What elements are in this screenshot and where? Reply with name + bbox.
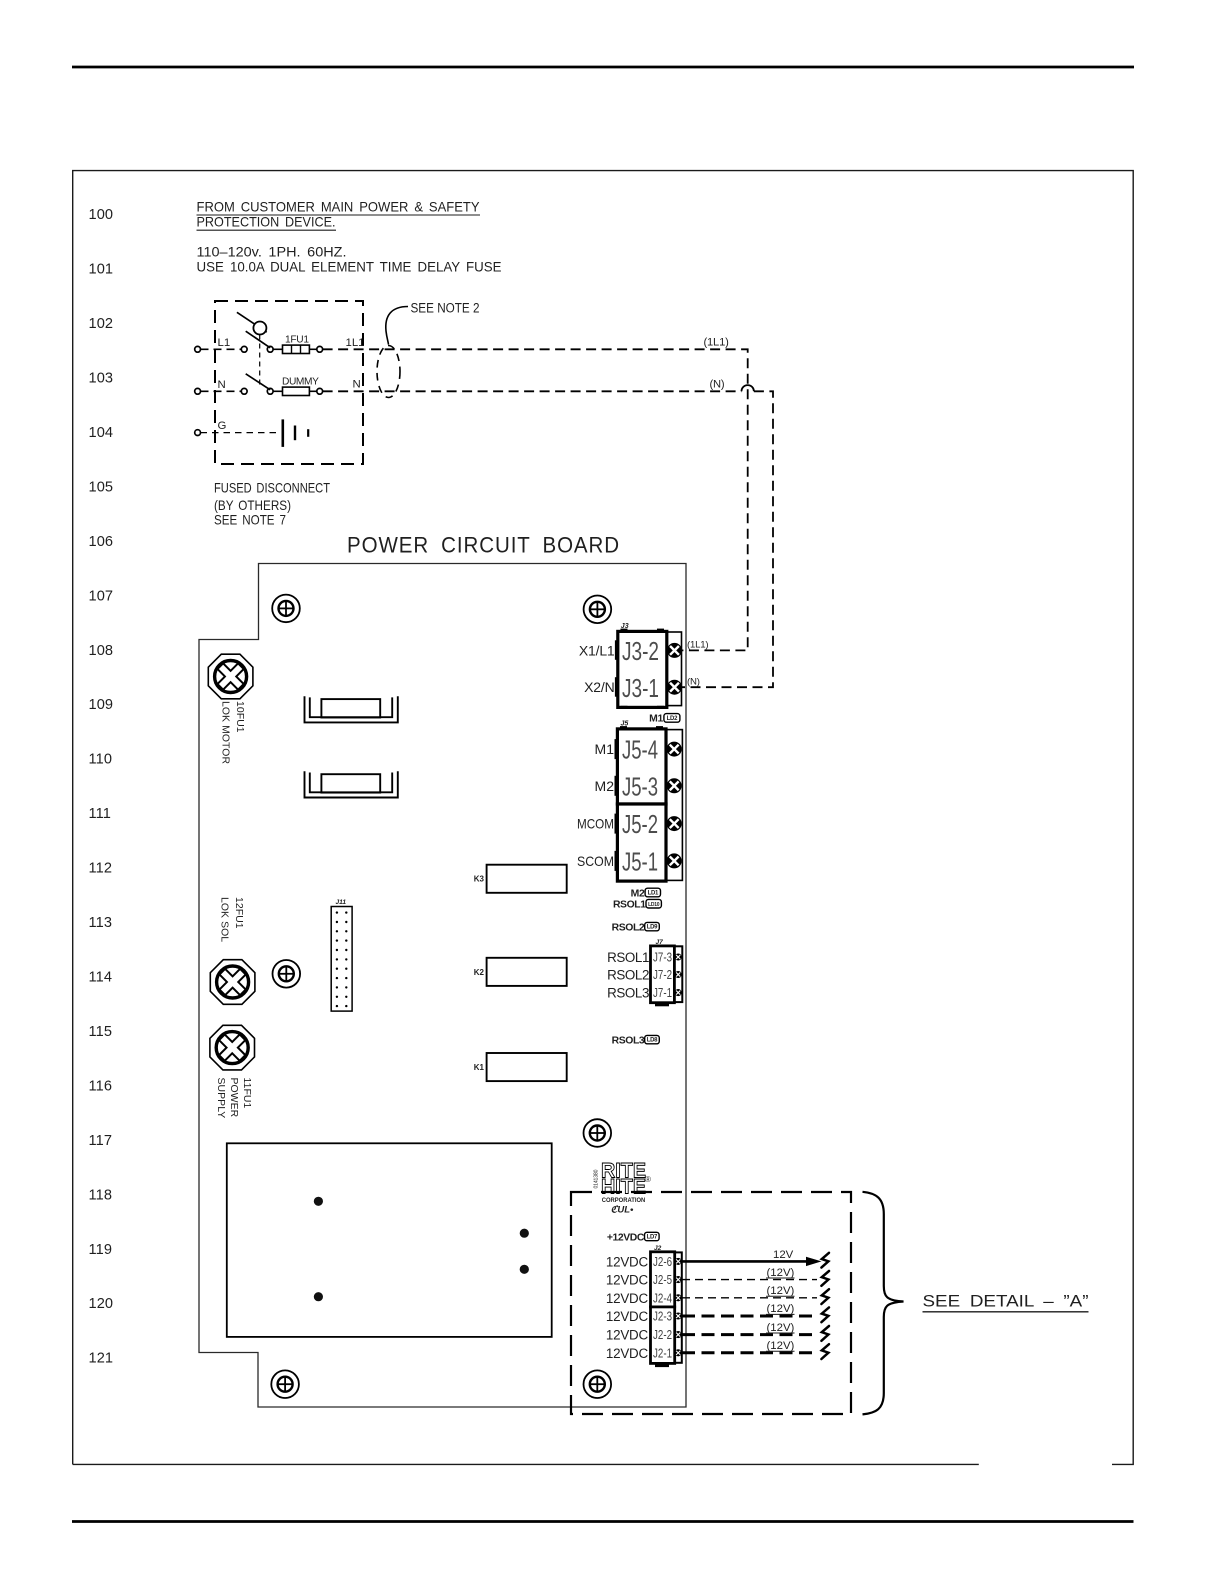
svg-text:105: 105 <box>89 479 114 495</box>
svg-text:+12VDC: +12VDC <box>607 1232 645 1243</box>
bottom rule <box>72 1520 1134 1523</box>
wire (12V) J2-1 <box>682 1351 817 1354</box>
fuse 10FU1 <box>208 654 253 699</box>
svg-text:(12V): (12V) <box>767 1340 795 1352</box>
svg-text:1FU1: 1FU1 <box>285 335 309 346</box>
mounting screw <box>271 1370 299 1398</box>
svg-text:M1: M1 <box>649 713 663 724</box>
connector J2 <box>651 1252 682 1367</box>
svg-text:12VDC: 12VDC <box>606 1328 649 1343</box>
mounting screw <box>584 1119 612 1147</box>
svg-text:RSOL2: RSOL2 <box>607 967 649 982</box>
switch blade L1 <box>246 331 271 348</box>
relay K3 <box>487 865 567 893</box>
svg-text:J7-1: J7-1 <box>653 986 672 1000</box>
svg-text:(N): (N) <box>687 676 700 687</box>
svg-text:100: 100 <box>89 207 114 223</box>
svg-text:J5: J5 <box>621 720 629 727</box>
mounting screw <box>272 595 300 623</box>
dummy fuse <box>283 387 310 395</box>
fused disconnect dashed enclosure <box>215 301 363 464</box>
svg-text:116: 116 <box>89 1078 113 1094</box>
svg-text:X2/N: X2/N <box>584 679 614 695</box>
svg-text:101: 101 <box>89 262 114 278</box>
svg-text:J2-5: J2-5 <box>653 1273 672 1287</box>
svg-text:12VDC: 12VDC <box>606 1309 649 1324</box>
svg-text:J2-1: J2-1 <box>653 1346 672 1360</box>
svg-text:112: 112 <box>89 861 113 877</box>
mounting screw <box>273 960 301 988</box>
svg-text:J2-2: J2-2 <box>653 1328 672 1342</box>
svg-text:106: 106 <box>89 534 114 550</box>
svg-text:CORPORATION: CORPORATION <box>602 1197 646 1204</box>
svg-text:J3-1: J3-1 <box>622 673 659 703</box>
svg-text:K3: K3 <box>474 875 485 884</box>
svg-text:107: 107 <box>89 588 114 604</box>
svg-text:SCOM: SCOM <box>577 853 614 869</box>
svg-text:(N): (N) <box>710 379 725 391</box>
svg-text:J5-1: J5-1 <box>622 847 658 877</box>
relay K1 <box>487 1053 567 1081</box>
svg-text:12VDC: 12VDC <box>606 1254 649 1269</box>
svg-text:SEE NOTE 2: SEE NOTE 2 <box>411 301 480 316</box>
power supply block <box>227 1143 552 1337</box>
svg-text:LD2: LD2 <box>667 716 678 722</box>
mounting screw <box>584 1370 612 1398</box>
L1 terminals and wire <box>201 348 242 350</box>
connector J11 <box>331 907 352 1012</box>
svg-text:FROM CUSTOMER MAIN POWER & SAF: FROM CUSTOMER MAIN POWER & SAFETY <box>197 199 481 215</box>
svg-text:J11: J11 <box>336 899 347 906</box>
svg-text:J2-6: J2-6 <box>653 1255 672 1269</box>
svg-text:118: 118 <box>89 1187 113 1203</box>
svg-text:LD8: LD8 <box>647 1038 658 1044</box>
fuse 11FU1 <box>210 1025 255 1070</box>
svg-text:102: 102 <box>89 316 114 332</box>
svg-text:SEE DETAIL – ”A”: SEE DETAIL – ”A” <box>923 1292 1089 1311</box>
wire (N) with hop <box>323 390 742 392</box>
svg-text:(1L1): (1L1) <box>687 640 708 651</box>
G terminal and wire <box>195 430 201 436</box>
svg-text:J3: J3 <box>621 623 629 630</box>
svg-text:USE 10.0A DUAL ELEMENT TIME DE: USE 10.0A DUAL ELEMENT TIME DELAY FUSE <box>197 259 502 275</box>
svg-text:LD7: LD7 <box>647 1235 658 1241</box>
svg-text:LD10: LD10 <box>648 902 660 908</box>
svg-text:K1: K1 <box>474 1063 485 1072</box>
wire (12V) J2-2 <box>682 1333 817 1336</box>
svg-text:M2: M2 <box>595 778 615 794</box>
svg-text:LD9: LD9 <box>647 925 658 931</box>
svg-text:RSOL2: RSOL2 <box>612 923 645 934</box>
svg-text:120: 120 <box>89 1296 114 1312</box>
svg-text:K2: K2 <box>474 968 485 977</box>
svg-text:FUSED DISCONNECT: FUSED DISCONNECT <box>214 481 330 496</box>
detail A dashed boundary <box>571 1192 851 1414</box>
svg-text:110: 110 <box>89 752 113 768</box>
mechanical link (dashed) <box>259 335 261 389</box>
fuse 12FU1 <box>210 960 255 1005</box>
disconnect caption <box>214 481 330 528</box>
svg-text:J2-3: J2-3 <box>653 1310 672 1324</box>
svg-text:J2: J2 <box>654 1245 662 1252</box>
svg-text:12V: 12V <box>773 1249 794 1261</box>
svg-text:L1: L1 <box>218 337 231 349</box>
switch operator handle <box>237 312 267 332</box>
svg-text:J3-2: J3-2 <box>622 636 659 666</box>
svg-text:N: N <box>218 379 226 391</box>
svg-text:113: 113 <box>89 915 113 931</box>
svg-text:G: G <box>218 420 227 432</box>
relay K2 <box>487 958 567 986</box>
svg-text:J7-3: J7-3 <box>653 951 672 965</box>
svg-text:POWER CIRCUIT BOARD: POWER CIRCUIT BOARD <box>347 533 620 558</box>
fuse 1FU1 <box>283 345 310 353</box>
svg-text:RSOL1: RSOL1 <box>607 950 649 965</box>
mounting screw <box>584 596 612 624</box>
svg-text:119: 119 <box>89 1242 113 1258</box>
connector J3 <box>615 629 682 709</box>
transformer symbol <box>305 771 398 797</box>
svg-text:(12V): (12V) <box>767 1322 795 1334</box>
svg-text:12VDC: 12VDC <box>606 1346 649 1361</box>
connector J5 <box>615 726 683 882</box>
top rule <box>72 66 1134 69</box>
line numbers 100-121 <box>89 207 114 1367</box>
svg-text:J5-2: J5-2 <box>622 809 658 839</box>
drawing frame <box>73 171 1134 1465</box>
svg-text:104: 104 <box>89 425 114 441</box>
svg-text:HITE: HITE <box>601 1176 646 1199</box>
svg-text:J5-4: J5-4 <box>622 735 658 765</box>
svg-text:RSOL1: RSOL1 <box>613 900 646 911</box>
svg-text:114: 114 <box>89 970 113 986</box>
svg-text:N: N <box>353 379 361 391</box>
note: from customer main power <box>197 199 502 275</box>
svg-text:X1/L1: X1/L1 <box>579 642 615 658</box>
svg-text:115: 115 <box>89 1024 113 1040</box>
dashed oval around wires <box>377 346 400 398</box>
svg-text:J2-4: J2-4 <box>653 1291 672 1305</box>
svg-text:J7: J7 <box>656 939 664 946</box>
svg-text:110–120v. 1PH. 60HZ.: 110–120v. 1PH. 60HZ. <box>197 244 347 260</box>
svg-text:M2: M2 <box>631 888 645 899</box>
transformer symbol <box>305 696 398 722</box>
N terminals and wire <box>201 390 242 392</box>
svg-text:(12V): (12V) <box>767 1303 795 1315</box>
svg-text:J7-2: J7-2 <box>653 968 672 982</box>
svg-text:103: 103 <box>89 371 114 387</box>
svg-text:117: 117 <box>89 1133 113 1149</box>
svg-text:RSOL3: RSOL3 <box>612 1036 645 1047</box>
switch blade N <box>246 374 271 390</box>
wire (12V) J2-3 <box>682 1315 817 1318</box>
connector J7 <box>651 946 683 1006</box>
svg-text:(BY OTHERS): (BY OTHERS) <box>214 498 291 513</box>
power circuit board outline <box>199 564 686 1408</box>
wire 12V J2-6 (solid with arrow) <box>682 1260 810 1263</box>
svg-text:108: 108 <box>89 643 114 659</box>
svg-text:®: ® <box>645 1175 651 1184</box>
wire (1L1) <box>323 349 748 650</box>
svg-text:12VDC: 12VDC <box>606 1291 649 1306</box>
svg-text:121: 121 <box>89 1351 114 1367</box>
svg-text:0141380: 0141380 <box>594 1169 600 1188</box>
svg-text:111: 111 <box>89 806 111 822</box>
ground symbol <box>283 419 308 447</box>
disconnect terminal labels <box>218 337 365 432</box>
rite-hite corporation logo <box>594 1160 652 1216</box>
svg-text:J5-3: J5-3 <box>622 771 658 801</box>
svg-text:MCOM: MCOM <box>577 816 614 832</box>
svg-text:LD1: LD1 <box>648 891 659 897</box>
svg-text:109: 109 <box>89 697 114 713</box>
svg-text:(12V): (12V) <box>767 1285 795 1297</box>
svg-text:RSOL3: RSOL3 <box>607 985 649 1000</box>
svg-text:ℭUL•: ℭUL• <box>611 1205 634 1216</box>
svg-text:1L1: 1L1 <box>346 337 365 349</box>
svg-text:(12V): (12V) <box>767 1267 795 1279</box>
svg-text:DUMMY: DUMMY <box>282 376 319 387</box>
svg-text:(1L1): (1L1) <box>704 337 730 349</box>
svg-text:PROTECTION DEVICE.: PROTECTION DEVICE. <box>197 214 336 230</box>
wire (12V) J2-5 <box>682 1279 817 1281</box>
wire (12V) J2-4 <box>682 1297 817 1299</box>
svg-text:M1: M1 <box>595 741 615 757</box>
svg-text:12VDC: 12VDC <box>606 1273 649 1288</box>
brace <box>863 1192 904 1415</box>
svg-text:SEE NOTE 7: SEE NOTE 7 <box>214 513 286 528</box>
